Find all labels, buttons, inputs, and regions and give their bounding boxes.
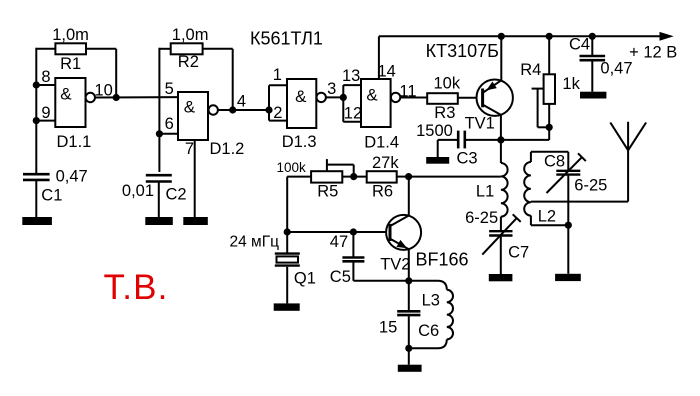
svg-text:C3: C3 xyxy=(457,149,478,167)
svg-text:1,0m: 1,0m xyxy=(172,26,209,44)
svg-text:11: 11 xyxy=(399,82,416,100)
svg-text:4: 4 xyxy=(237,92,246,110)
svg-text:14: 14 xyxy=(378,63,396,81)
svg-text:R5: R5 xyxy=(317,183,338,201)
svg-text:&: & xyxy=(184,97,196,116)
svg-text:&: & xyxy=(366,86,378,105)
svg-text:К561ТЛ1: К561ТЛ1 xyxy=(250,29,323,49)
svg-text:C5: C5 xyxy=(330,268,351,286)
svg-text:0,01: 0,01 xyxy=(122,182,154,200)
svg-text:100k: 100k xyxy=(277,160,307,175)
svg-text:R4: R4 xyxy=(520,61,541,79)
svg-text:TV2: TV2 xyxy=(380,256,410,274)
svg-text:D1.4: D1.4 xyxy=(364,134,399,152)
svg-text:3: 3 xyxy=(327,80,336,98)
svg-text:D1.2: D1.2 xyxy=(210,140,245,158)
svg-text:D1.3: D1.3 xyxy=(282,133,317,151)
svg-text:C1: C1 xyxy=(41,186,62,204)
svg-text:Т.В.: Т.В. xyxy=(104,268,169,307)
svg-text:&: & xyxy=(295,87,307,106)
svg-text:C4: C4 xyxy=(569,36,590,54)
svg-text:1500: 1500 xyxy=(416,122,453,140)
svg-text:L2: L2 xyxy=(538,208,556,226)
svg-text:Q1: Q1 xyxy=(294,270,316,288)
svg-text:6-25: 6-25 xyxy=(574,177,607,195)
svg-text:R2: R2 xyxy=(178,53,199,71)
svg-text:C6: C6 xyxy=(418,322,439,340)
svg-text:+ 12 В: + 12 В xyxy=(629,44,677,62)
svg-text:D1.1: D1.1 xyxy=(57,133,92,151)
svg-text:2: 2 xyxy=(273,104,282,122)
svg-text:6: 6 xyxy=(165,115,174,133)
svg-text:R6: R6 xyxy=(372,183,393,201)
svg-text:6-25: 6-25 xyxy=(465,209,498,227)
svg-text:1,0m: 1,0m xyxy=(52,26,89,44)
svg-text:C8: C8 xyxy=(544,153,565,171)
svg-text:1k: 1k xyxy=(562,75,580,93)
svg-text:TV1: TV1 xyxy=(465,115,495,133)
svg-text:24 мГц: 24 мГц xyxy=(230,234,280,251)
svg-text:R1: R1 xyxy=(60,55,81,73)
svg-text:10: 10 xyxy=(94,81,112,99)
svg-text:C2: C2 xyxy=(166,186,187,204)
svg-text:L3: L3 xyxy=(422,292,440,310)
svg-text:1: 1 xyxy=(273,66,282,84)
svg-text:КТ3107Б: КТ3107Б xyxy=(426,41,499,61)
svg-text:&: & xyxy=(60,85,72,104)
svg-text:R3: R3 xyxy=(434,104,455,122)
svg-text:13: 13 xyxy=(342,67,360,85)
svg-text:12: 12 xyxy=(344,105,362,123)
svg-text:BF166: BF166 xyxy=(416,250,469,270)
svg-text:10k: 10k xyxy=(434,74,461,92)
svg-text:15: 15 xyxy=(379,318,397,336)
svg-text:5: 5 xyxy=(165,80,174,98)
svg-text:0,47: 0,47 xyxy=(600,59,632,77)
svg-text:C7: C7 xyxy=(508,243,529,261)
svg-text:0,47: 0,47 xyxy=(56,168,88,186)
svg-text:27k: 27k xyxy=(372,154,399,172)
svg-text:47: 47 xyxy=(330,233,348,251)
svg-text:7: 7 xyxy=(185,140,194,158)
svg-text:L1: L1 xyxy=(476,183,494,201)
svg-text:9: 9 xyxy=(41,104,50,122)
svg-text:8: 8 xyxy=(41,68,50,86)
